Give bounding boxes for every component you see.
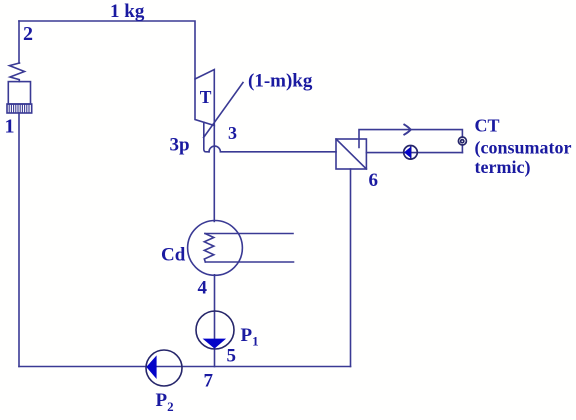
flow arrow on CT supply	[404, 125, 410, 135]
wire: turbine exhaust down to condenser	[213, 126, 215, 222]
wire: CT supply line from exchanger 6	[359, 130, 462, 148]
consumer terminal circle at CT	[458, 137, 466, 145]
boiler grate hatch lines	[9, 104, 29, 112]
condenser Cd circle	[188, 221, 243, 276]
wire: left downcomer node 2 to boiler	[18, 21, 20, 63]
svg-text:5: 5	[227, 346, 237, 367]
condenser cooling water inlet stub	[205, 261, 293, 263]
wire: top header from node 2 to turbine inlet	[19, 21, 195, 79]
svg-text:4: 4	[198, 278, 208, 299]
CT circulation pump circle	[404, 146, 418, 160]
turbine extraction neck at 3p	[204, 122, 209, 152]
svg-text:P2: P2	[156, 390, 174, 414]
svg-text:7: 7	[204, 371, 214, 392]
CT pump diameter line	[410, 146, 412, 159]
heat exchanger 6 diagonal	[336, 139, 366, 169]
svg-text:(consumator: (consumator	[475, 137, 572, 158]
pump P2 triangle	[146, 355, 156, 379]
pump P1 triangle	[203, 339, 227, 349]
wire: exchanger 6 condensate drain	[350, 169, 352, 367]
wire: condenser to pump P1	[214, 275, 216, 311]
svg-text:1 kg: 1 kg	[110, 1, 145, 22]
leader line for (1-m)kg	[204, 83, 243, 138]
svg-text:P1: P1	[241, 325, 259, 349]
wire: bottom return line to heat exchanger drain	[19, 366, 351, 368]
boiler grate hatched strip	[7, 104, 32, 113]
wire: extraction line with hop over condenser line to exchanger 6	[209, 146, 336, 152]
wire: CT right drop to return	[461, 145, 463, 153]
boiler superheater spring (component 1 top)	[10, 63, 25, 82]
condenser cooling water outlet stub	[205, 233, 293, 235]
pump P2 circle	[146, 350, 182, 386]
svg-text:6: 6	[369, 170, 379, 191]
condenser cooling coil zigzag	[204, 234, 214, 263]
svg-text:CT: CT	[475, 116, 500, 136]
svg-text:(1-m)kg: (1-m)kg	[248, 71, 313, 92]
pump P1 circle	[196, 311, 234, 349]
boiler body box (component 1)	[8, 82, 30, 104]
wire: CT return line into exchanger 6	[366, 152, 462, 154]
wire: boiler outlet down left side	[18, 113, 20, 367]
CT pump triangle	[404, 146, 411, 158]
svg-text:termic): termic)	[475, 157, 531, 178]
turbine T body	[195, 70, 214, 126]
svg-text:2: 2	[23, 23, 33, 45]
svg-text:1: 1	[5, 116, 15, 138]
wire: through pump P1 to node 7	[214, 311, 216, 366]
svg-text:T: T	[200, 87, 212, 107]
heat exchanger 6 box	[336, 139, 366, 169]
svg-text:Cd: Cd	[161, 244, 186, 265]
svg-text:3: 3	[228, 123, 237, 143]
svg-text:3p: 3p	[170, 134, 190, 155]
